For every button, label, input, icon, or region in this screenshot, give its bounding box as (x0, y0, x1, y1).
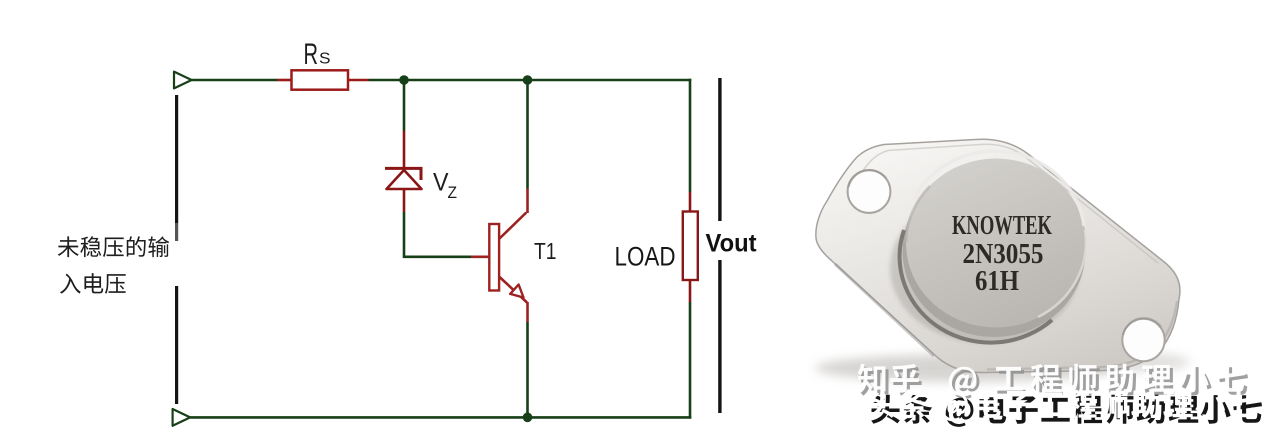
node junction 1 (399, 75, 409, 85)
watermark line2 头条 white (866, 389, 1257, 421)
resistor RS (277, 70, 369, 89)
output terminal bar upper (718, 78, 721, 221)
mounting hole bottom-right (1122, 318, 1164, 361)
mounting hole top-left (848, 170, 891, 213)
output terminal bar lower (718, 260, 721, 413)
label Vout (706, 230, 758, 258)
wire collector (526, 82, 529, 189)
watermark line1 知乎 white (858, 364, 1245, 396)
wire top rail right (369, 79, 692, 82)
svg-text:Vout: Vout (706, 230, 758, 258)
watermark line1 知乎 shadow (861, 367, 1248, 399)
label 未稳压的输入电压 (58, 236, 170, 294)
transistor can (890, 151, 1086, 343)
node junction bottom (523, 413, 533, 423)
wire bottom rail (190, 416, 691, 419)
svg-text:R: R (304, 38, 319, 71)
input terminal bar top segment (175, 95, 178, 241)
svg-text:S: S (319, 51, 331, 68)
label RS (304, 38, 331, 71)
svg-text:V: V (433, 168, 449, 196)
transistor photo shadow (815, 352, 1190, 382)
label VZ (433, 168, 457, 202)
node junction 2 (523, 75, 533, 85)
wire load branch lower (689, 302, 692, 419)
wire zener to base (404, 212, 471, 257)
zener diode VZ (385, 131, 422, 212)
resistor LOAD (683, 192, 698, 302)
input terminal arrow bottom (173, 409, 191, 426)
svg-text:Z: Z (448, 183, 458, 202)
svg-text:KNOWTEK: KNOWTEK (952, 210, 1052, 240)
wire emitter (526, 322, 529, 417)
svg-text:LOAD: LOAD (615, 242, 676, 272)
input terminal arrow top (174, 72, 192, 89)
wire load branch upper (689, 79, 692, 192)
wire top rail left (192, 79, 277, 82)
transistor T1 (471, 189, 528, 323)
input terminal bar bottom segment (175, 286, 178, 404)
wire zener branch upper (403, 80, 406, 131)
watermark line2 头条 shadow (871, 395, 1262, 427)
transistor photo flange (816, 139, 1180, 372)
svg-text:T1: T1 (534, 238, 557, 264)
label LOAD (615, 242, 676, 272)
can text KNOWTEK 2N3055 61H (952, 210, 1052, 297)
svg-text:61H: 61H (975, 266, 1019, 297)
label T1 (534, 238, 557, 264)
